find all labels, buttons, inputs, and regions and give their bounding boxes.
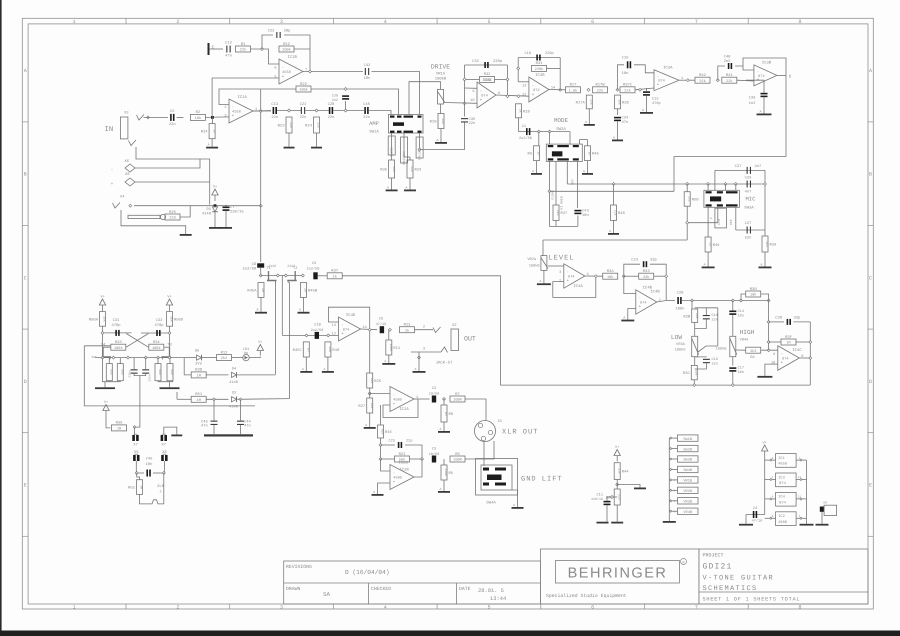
capacitor C5 (380, 326, 384, 333)
switch tail HI GAIN (555, 161, 557, 205)
V+ power stack (762, 441, 768, 458)
svg-text:C19: C19 (712, 357, 718, 362)
svg-text:R8: R8 (449, 412, 454, 417)
svg-text:C36: C36 (332, 94, 338, 99)
junction at R2 output node (211, 116, 214, 119)
wire IC1A output row (253, 110, 271, 112)
wire C39 stub (746, 80, 764, 93)
svg-text:D: D (869, 379, 872, 385)
svg-text:220/16: 220/16 (230, 210, 244, 215)
svg-text:5: 5 (487, 19, 490, 25)
wire R51 row left (177, 398, 192, 400)
wire IC2B plus gnd (378, 483, 391, 492)
svg-text:11: 11 (798, 476, 802, 479)
wire mic top pin stub2 (724, 184, 726, 190)
wire r45c stem (305, 357, 307, 369)
border tick bottom 4 (436, 604, 438, 609)
wire T2 drain drop (289, 282, 291, 399)
ground below SW4A (512, 503, 524, 509)
svg-text:SW4B: SW4B (683, 468, 692, 473)
svg-text:GND LIFT: GND LIFT (521, 476, 563, 484)
svg-text:22k: 22k (441, 118, 445, 124)
svg-text:4: 4 (384, 605, 387, 611)
svg-text:X5: X5 (823, 501, 827, 505)
wire C6 to R2 (177, 116, 184, 118)
wire IC2B out (414, 459, 422, 477)
jumper X9 (133, 450, 139, 461)
jack X4 tip contact (113, 203, 121, 209)
junction row184 r50 (686, 183, 689, 186)
svg-text:JACK-ST: JACK-ST (436, 361, 453, 366)
svg-text:56k: 56k (170, 369, 174, 375)
svg-text:OFF: OFF (729, 219, 733, 225)
svg-text:1: 1 (73, 19, 76, 25)
svg-text:+: + (393, 402, 396, 407)
svg-text:R27: R27 (358, 404, 365, 409)
svg-text:R41: R41 (726, 73, 734, 78)
junction C1 row 2 (548, 130, 551, 133)
svg-text:22n: 22n (271, 115, 278, 120)
svg-text:REVISIONS: REVISIONS (286, 564, 312, 570)
wire D6 to R12 (202, 357, 217, 359)
wire HIGH wiper to R4 (736, 349, 745, 351)
wire r3f right (796, 341, 811, 343)
capacitor C29 (747, 181, 751, 188)
svg-text:V+: V+ (167, 295, 171, 300)
svg-text:47/16: 47/16 (376, 322, 387, 327)
junction EQ row right (767, 299, 770, 302)
wire R26 node to IC2A (370, 393, 390, 395)
svg-text:22n: 22n (328, 115, 335, 120)
resistor R50D (167, 312, 184, 327)
svg-text:R2: R2 (196, 110, 201, 115)
wire c19a bot (695, 319, 707, 328)
resistor R21 (395, 452, 410, 463)
svg-text:3: 3 (423, 347, 425, 352)
resistor R52C (167, 364, 174, 381)
capacitor C2 (432, 396, 436, 403)
wire R2 to IC1A pin3 (205, 116, 229, 119)
svg-text:6: 6 (591, 605, 594, 611)
junction C25 row (379, 444, 382, 447)
ground compressor left (95, 382, 115, 389)
svg-text:A: A (760, 109, 762, 113)
svg-text:SW3A: SW3A (744, 206, 754, 211)
junction row222 (686, 221, 689, 224)
wire left frame top (84, 345, 110, 347)
V+ at LED (257, 340, 263, 356)
wire wiper riser (717, 308, 719, 346)
op-amp IC4D (332, 313, 367, 341)
svg-text:56k: 56k (121, 369, 125, 375)
wire IC1B pin5 to input node (212, 78, 279, 117)
junction IC4A out (594, 275, 597, 278)
svg-text:C8: C8 (252, 262, 257, 267)
resistor R31 (532, 61, 547, 72)
wire D3 to T2 drop (237, 398, 289, 401)
resistor R45C (293, 342, 311, 357)
junction R3A out (622, 275, 625, 278)
vertical IC3B fb left (517, 58, 519, 82)
ground below C11 (597, 522, 609, 524)
junction r3f row left (767, 341, 770, 344)
svg-text:1n2: 1n2 (749, 101, 757, 106)
capacitor C42 (364, 63, 372, 81)
wire IC4A out (585, 275, 603, 277)
border tick top 4 (436, 18, 438, 24)
junction R43 right (665, 275, 668, 278)
svg-text:C23: C23 (631, 257, 639, 262)
svg-text:1M: 1M (140, 485, 144, 489)
ground below R49 (702, 252, 715, 268)
wire IC4B plus gnd (628, 309, 636, 318)
resistor R4 (746, 347, 761, 354)
svg-text:2: 2 (176, 605, 179, 611)
jack X4 tip pin (129, 204, 132, 207)
wire R18 to C1 row (518, 118, 520, 132)
svg-text:IC3: IC3 (778, 475, 785, 480)
svg-text:22n: 22n (469, 121, 476, 126)
junction c32 (168, 332, 171, 335)
svg-text:220: 220 (169, 216, 175, 221)
junction C10 left (305, 334, 308, 337)
svg-text:1M: 1M (261, 288, 265, 292)
wire c19b loop (695, 356, 707, 358)
wire R50A col (102, 326, 104, 357)
wire R37C to IC3A (635, 88, 654, 90)
wire IC3B2 out (777, 74, 786, 76)
resistor R8 (441, 405, 454, 422)
svg-text:9: 9 (472, 89, 474, 94)
svg-text:IC3C: IC3C (483, 78, 493, 83)
resistor R2B (683, 309, 699, 323)
svg-text:IC3B: IC3B (762, 61, 772, 66)
svg-text:22k: 22k (240, 48, 246, 53)
svg-text:4148: 4148 (229, 405, 238, 410)
svg-text:22k: 22k (726, 79, 732, 84)
switch SW4A GND LIFT block (481, 465, 512, 490)
svg-text:22n: 22n (363, 115, 370, 120)
svg-text:VR4B: VR4B (683, 510, 692, 515)
svg-text:9: 9 (773, 352, 775, 357)
svg-text:+: + (111, 182, 114, 187)
capacitor C22 (276, 32, 280, 38)
svg-text:C40: C40 (724, 55, 732, 60)
capacitor C20 (677, 297, 681, 304)
svg-text:22n: 22n (712, 318, 718, 323)
wire R32 to right vertical (495, 78, 508, 80)
wire R50D col (169, 326, 171, 357)
chassis bracket (140, 473, 164, 504)
resistor R50A (89, 312, 107, 327)
junction IC3A out (686, 79, 689, 82)
svg-text:IC4: IC4 (778, 495, 785, 500)
svg-text:47n: 47n (244, 424, 251, 429)
junction jack gnd (418, 356, 421, 359)
svg-text:10/50: 10/50 (429, 452, 440, 457)
svg-text:C46: C46 (146, 457, 154, 462)
wire IC4B out row (666, 300, 675, 302)
border tick left 4 (22, 432, 28, 434)
svg-text:R45A: R45A (247, 288, 257, 293)
svg-text:22k: 22k (392, 166, 396, 172)
resistor R30 (746, 287, 761, 298)
svg-text:IC1A: IC1A (238, 95, 248, 100)
junction R26 R27 (368, 392, 371, 395)
junction c38 row left (767, 320, 770, 323)
svg-text:R20: R20 (622, 100, 630, 105)
wire C42 to AMP switch pin4 (372, 72, 420, 115)
svg-text:1M: 1M (117, 427, 121, 432)
wire C37 row (715, 169, 765, 171)
svg-text:C37: C37 (735, 164, 742, 169)
svg-text:IC2: IC2 (778, 514, 785, 519)
wire pot gnd (543, 270, 545, 281)
wire XLR shell drop (483, 442, 485, 467)
capacitor C35 (461, 117, 476, 126)
svg-text:56k: 56k (110, 369, 114, 375)
svg-text:R33: R33 (115, 340, 123, 345)
svg-text:B: B (24, 172, 27, 178)
wire C38 right (794, 321, 811, 323)
svg-text:A: A (585, 120, 587, 124)
svg-text:100k: 100k (299, 88, 308, 93)
op-amp IC2B (390, 460, 414, 489)
border tick top 2 (229, 18, 231, 24)
wire R41 to IC3B2 (737, 79, 754, 82)
svg-text:IC4A: IC4A (573, 284, 583, 289)
wire SW4A to ground (512, 490, 518, 505)
wire LED to V+ (249, 357, 260, 358)
resistor R23 (278, 117, 294, 133)
svg-text:R39: R39 (770, 243, 778, 248)
svg-text:AMP: AMP (369, 121, 379, 127)
capacitor C16 (627, 61, 631, 68)
wire T3 to D6 (184, 357, 196, 359)
svg-text:33k: 33k (643, 275, 649, 280)
wire C35 vertical to rows (464, 65, 466, 117)
svg-text:A: A (208, 143, 210, 147)
resistor R12b (217, 350, 232, 361)
svg-text:8: 8 (772, 515, 774, 518)
project box (699, 549, 868, 604)
wire IC2B minus (381, 459, 391, 471)
svg-text:074: 074 (658, 79, 664, 84)
svg-text:SCHEMATICS: SCHEMATICS (703, 585, 758, 593)
svg-text:R7: R7 (455, 392, 460, 397)
svg-text:R51: R51 (195, 392, 203, 397)
ground below R5 (438, 480, 450, 493)
svg-text:R: R (682, 560, 684, 565)
jack X2 body (451, 329, 459, 351)
wire C43 bottom (577, 216, 579, 227)
svg-text:C: C (212, 45, 215, 51)
wire C31b row (103, 332, 132, 334)
svg-text:12: 12 (332, 332, 336, 337)
svg-text:10n: 10n (738, 370, 744, 375)
svg-text:220n: 220n (129, 370, 132, 377)
wire r16 bottom (380, 438, 382, 459)
wire C15 bottom (646, 96, 648, 112)
svg-text:A: A (299, 308, 301, 312)
wire X3 ring row (136, 147, 210, 159)
svg-text:R12: R12 (283, 42, 291, 47)
diode D3 (232, 397, 237, 403)
wire r5 stem (443, 459, 445, 465)
junction row357 x145.7 (144, 356, 147, 359)
svg-text:V+: V+ (100, 295, 104, 300)
resistor R22 (296, 82, 311, 93)
svg-text:A: A (539, 279, 541, 283)
switch tail CTR (717, 207, 719, 222)
wire c19a stems (705, 308, 707, 315)
svg-text:074: 074 (640, 301, 646, 306)
wire row 191 CLEAN to MIC riser (549, 190, 674, 192)
wire C16 loop (618, 65, 625, 90)
svg-text:C31: C31 (472, 59, 480, 64)
junction frame r3c (693, 384, 696, 387)
transistor T4 (101, 343, 111, 360)
wire bottoms left r1 (108, 381, 110, 382)
svg-text:5: 5 (274, 74, 276, 79)
wire r4 to ic4c (761, 349, 778, 351)
svg-text:A: A (365, 423, 367, 427)
wire switch SW2A top pin b (569, 132, 571, 145)
border tick bottom 5 (540, 604, 542, 609)
capacitor C27 (747, 227, 751, 234)
svg-text:SW2B: SW2B (683, 447, 692, 452)
op-amp IC3C (470, 78, 500, 108)
svg-text:22p: 22p (406, 439, 412, 444)
capacitor C31b (115, 330, 119, 336)
project sheet row divider (699, 591, 868, 593)
svg-text:X1: X1 (498, 419, 503, 424)
svg-text:12: 12 (522, 92, 526, 97)
svg-text:074: 074 (782, 357, 788, 362)
svg-text:6: 6 (591, 19, 594, 25)
ground below C7 (220, 211, 232, 229)
junction R41 left (716, 79, 719, 82)
svg-text:100kB: 100kB (435, 77, 447, 82)
svg-text:2u2/50: 2u2/50 (243, 266, 257, 271)
svg-text:X8: X8 (125, 172, 130, 177)
wire c17 to frame (732, 372, 734, 385)
svg-text:B: B (869, 172, 872, 178)
svg-text:R17: R17 (570, 83, 577, 88)
wire c11 gnd (606, 505, 608, 522)
diode D6 (197, 355, 202, 361)
svg-text:C2: C2 (432, 386, 437, 391)
svg-text:SW3B: SW3B (683, 458, 692, 463)
ground below IC4B (621, 315, 634, 321)
svg-text:C31: C31 (113, 318, 121, 323)
junction R20 (616, 88, 619, 91)
svg-text:MIC: MIC (745, 196, 756, 203)
svg-text:R35: R35 (116, 421, 124, 426)
ground below R46 (582, 161, 593, 175)
svg-text:V+: V+ (213, 185, 217, 190)
svg-text:470p: 470p (652, 101, 661, 106)
svg-text:R18: R18 (523, 109, 531, 114)
svg-text:470p: 470p (154, 323, 164, 328)
svg-text:J112: J112 (268, 264, 276, 269)
capacitor C17 (729, 367, 736, 371)
capacitor C36 (342, 95, 349, 99)
junction row357 x113.4 (112, 356, 115, 359)
ground below VR2A (537, 279, 551, 285)
svg-text:R52: R52 (128, 486, 136, 491)
ground below R24 (311, 133, 322, 149)
wire battery rail down to V+ node (209, 159, 211, 205)
svg-text:074: 074 (779, 481, 786, 486)
border tick right 1 (868, 121, 874, 123)
svg-text:X8: X8 (162, 450, 167, 455)
contact box SW3B (669, 456, 698, 463)
junction C44 (239, 398, 242, 401)
resistor R42 (695, 73, 710, 84)
contact box SW2B (669, 445, 698, 452)
wire R6 to XLR pin3 (465, 441, 494, 459)
wire r52 top (137, 473, 140, 480)
junction R35 out (133, 426, 136, 429)
svg-text:V+: V+ (763, 441, 767, 446)
wire R1 to node and pin6 (251, 49, 280, 64)
svg-text:100kB: 100kB (716, 347, 728, 352)
wire R7 to XLR pin2 (465, 399, 486, 421)
svg-text:X9: X9 (134, 450, 139, 455)
capacitor C45b (201, 419, 218, 428)
wire C9 to R37 (318, 275, 328, 277)
junction CALIF tail (418, 148, 421, 151)
capacitor C19b (703, 359, 710, 363)
svg-text:22n: 22n (169, 122, 176, 127)
resistor R34 (149, 340, 164, 351)
svg-text:R4: R4 (750, 355, 754, 360)
svg-text:C24: C24 (622, 116, 630, 121)
svg-text:3: 3 (559, 270, 561, 275)
border tick right 4 (868, 432, 874, 434)
border tick left 2 (22, 225, 28, 227)
wire c44 down (240, 425, 242, 434)
svg-text:4148: 4148 (202, 212, 212, 217)
svg-text:R30: R30 (750, 287, 758, 292)
svg-text:IN: IN (105, 126, 114, 134)
svg-text:1.0k: 1.0k (569, 88, 578, 93)
svg-text:IC3B: IC3B (535, 73, 545, 78)
svg-text:C45: C45 (201, 419, 209, 424)
junction row 184 at R48 (612, 183, 615, 186)
resistor R51 (191, 392, 206, 403)
svg-text:2: 2 (176, 19, 179, 25)
wire r50 vertical (686, 184, 688, 192)
capacitor C13 (271, 102, 279, 120)
svg-text:C4: C4 (753, 506, 758, 511)
wire r3c to frame (693, 380, 695, 385)
junction C16 branch (639, 88, 642, 91)
wire IC3A out row (679, 79, 695, 81)
registered trademark symbol (681, 559, 687, 565)
junction row357 x128 (127, 356, 130, 359)
wire low pot to r3c (694, 357, 696, 366)
svg-text:3V9: 3V9 (195, 362, 201, 367)
vertical IC3B fb right (559, 58, 561, 90)
capacitor C24 (614, 116, 629, 125)
ic power box IC4 (765, 492, 807, 506)
svg-text:2: 2 (423, 325, 425, 330)
wire R51 left drop (176, 392, 178, 399)
junction R31 row left (517, 67, 520, 70)
svg-text:8: 8 (799, 605, 802, 611)
